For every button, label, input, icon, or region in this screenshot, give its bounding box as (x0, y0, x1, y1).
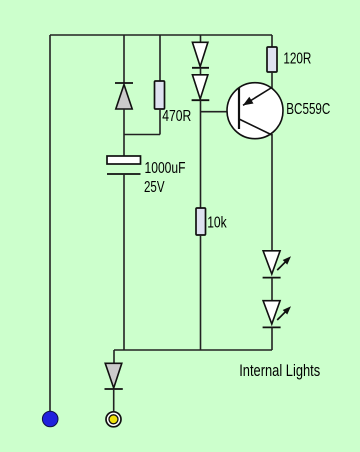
wire LED1 to LED2 (271, 278, 273, 301)
svg-text:BC559C: BC559C (286, 101, 330, 118)
node yellow terminal (106, 412, 121, 427)
wire base of transistor (201, 111, 240, 113)
wire 120R to transistor emitter (271, 72, 273, 88)
wire from top rail to diode D2 (200, 35, 202, 43)
diode D2 (white, pointing down) (192, 42, 209, 68)
svg-text:10k: 10k (207, 215, 227, 232)
capacitor C1 top plate (107, 156, 141, 164)
diode D4 (gray, pointing down) (105, 363, 123, 389)
transistor Q1 BC559C (227, 83, 283, 139)
svg-text:25V: 25V (144, 179, 165, 196)
resistor 470R (155, 81, 165, 109)
wire bottom rail (114, 349, 272, 351)
wire top rail (50, 34, 272, 36)
diode D3 (white, pointing down) (192, 75, 210, 100)
wire LED2 to bottom rail (271, 327, 273, 350)
wire resistor 470R bottom (159, 109, 161, 135)
LED LED2 (263, 301, 291, 328)
svg-text:Internal Lights: Internal Lights (239, 362, 320, 380)
wire junction D1/470R horizontal (124, 134, 160, 136)
diode D1 (gray, cathode bar top) (115, 83, 133, 109)
wire D4 to yellow terminal (113, 389, 115, 412)
wire capacitor to bottom junction (123, 174, 125, 350)
wire D3 to resistor 10k (200, 100, 202, 208)
wire from top rail to diode D1 (123, 35, 125, 83)
wire left vertical to blue terminal (49, 35, 51, 411)
node blue terminal (42, 411, 58, 427)
wire from top rail to resistor 120R (271, 35, 273, 47)
capacitor C1 bottom plate (107, 173, 141, 175)
LED LED1 (263, 251, 291, 278)
resistor 120R (267, 47, 277, 72)
wire from top rail to resistor R 470R (159, 35, 161, 81)
wire diode D1 to capacitor (123, 109, 125, 156)
svg-text:470R: 470R (162, 108, 191, 125)
wire 10k bottom to bottom rail (200, 235, 202, 350)
resistor 10k (196, 208, 206, 235)
wire collector to LED1 (271, 134, 273, 251)
wire bottom rail to diode D4 (113, 350, 115, 364)
wire D2 to D3 (200, 68, 202, 75)
svg-text:120R: 120R (283, 51, 311, 68)
svg-text:1000uF: 1000uF (145, 160, 186, 177)
